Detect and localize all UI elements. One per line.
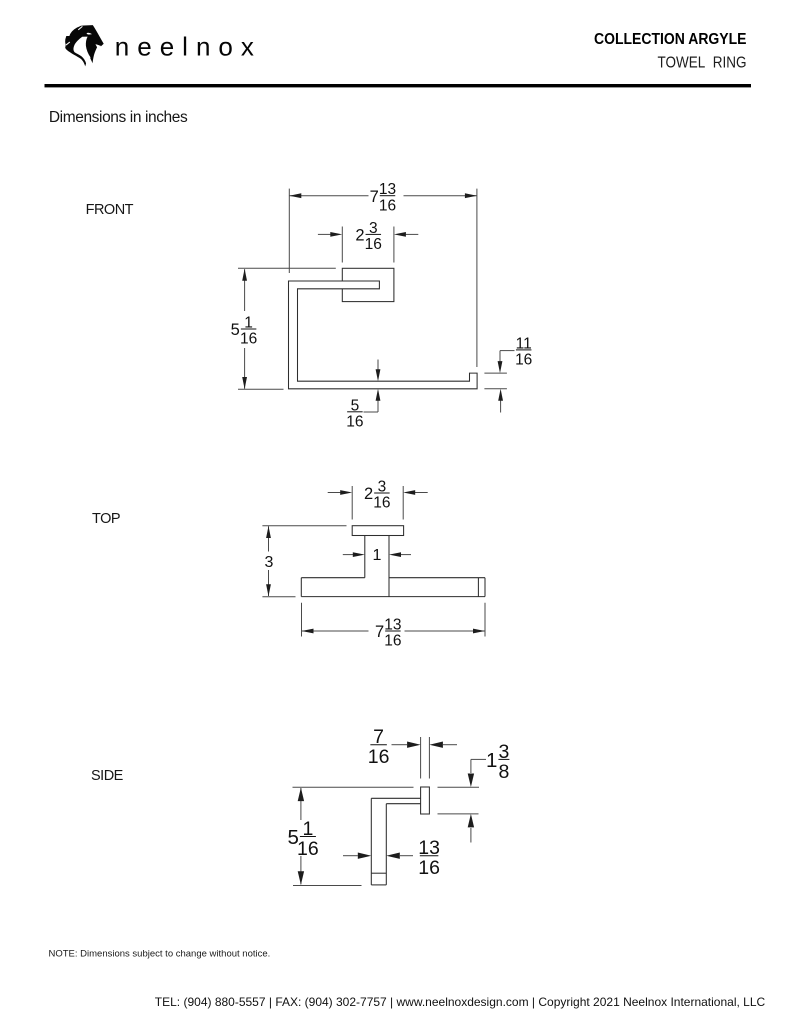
header rule [45,84,752,87]
svg-text:16: 16 [346,414,363,431]
side: wall plate [421,787,430,814]
front dim 11/16 end tab height [484,372,507,374]
front dim 5 1/16 overall height [238,267,336,269]
svg-text:16: 16 [515,352,532,369]
top: mount plate [352,526,403,536]
svg-text:neelnox: neelnox [115,31,262,61]
svg-text:7: 7 [375,623,384,641]
top dim 2 3/16 plate width [351,486,353,520]
svg-text:3: 3 [378,479,387,496]
top: bar [301,577,365,579]
svg-text:11: 11 [516,335,532,352]
svg-text:16: 16 [418,857,440,879]
svg-text:8: 8 [498,761,509,783]
top dim 3 depth [262,525,346,527]
side: post [370,798,372,885]
top dim 1 stem width [343,554,354,556]
svg-text:13: 13 [379,181,396,198]
svg-text:1: 1 [486,749,497,772]
svg-text:1: 1 [373,547,382,564]
svg-text:TOP: TOP [92,511,120,527]
front dim 5/16 bar thickness [377,360,379,371]
top: stem [364,536,366,578]
svg-text:16: 16 [379,197,396,214]
logo horse head [65,25,104,66]
side dim 1 3/8 plate height [293,786,414,788]
svg-text:16: 16 [373,495,390,512]
front dim 7 13/16 overall width [288,189,290,273]
svg-text:NOTE: Dimensions subject to ch: NOTE: Dimensions subject to change witho… [49,949,271,960]
side dim 7/16 plate thickness [420,737,422,779]
svg-text:5: 5 [231,321,240,339]
front: towel ring outline [289,281,478,389]
svg-text:16: 16 [368,746,390,768]
side: arm [371,797,420,799]
svg-text:16: 16 [297,838,319,860]
svg-text:2: 2 [355,226,364,244]
front dim 2 3/16 plate width [341,227,343,263]
logo white details (mane gap, eye, mouth) [73,33,100,67]
svg-text:5: 5 [287,826,298,849]
svg-text:SIDE: SIDE [91,768,124,784]
svg-text:1: 1 [244,315,253,332]
svg-text:TEL: (904) 880-5557 | FAX: (90: TEL: (904) 880-5557 | FAX: (904) 302-775… [155,995,766,1009]
front: wall mount plate [342,268,394,301]
svg-text:FRONT: FRONT [86,202,134,218]
svg-text:1: 1 [302,818,313,840]
svg-text:16: 16 [365,236,382,253]
svg-text:COLLECTION ARGYLE: COLLECTION ARGYLE [594,31,747,48]
svg-text:16: 16 [384,633,401,650]
svg-text:TOWEL RING: TOWEL RING [658,55,747,72]
svg-text:2: 2 [364,485,373,503]
svg-text:7: 7 [373,726,384,748]
side dim 13/16 post width [343,855,358,857]
svg-text:Dimensions in inches: Dimensions in inches [49,109,188,126]
svg-text:3: 3 [369,220,378,237]
side dim 5 1/16 overall height [293,885,362,887]
svg-text:7: 7 [370,188,379,206]
svg-text:16: 16 [240,331,257,348]
svg-text:13: 13 [384,617,401,634]
svg-text:5: 5 [351,397,360,414]
top dim 7 13/16 overall width [301,603,303,637]
svg-text:3: 3 [498,741,509,763]
svg-text:3: 3 [265,554,274,571]
svg-text:13: 13 [418,837,440,859]
